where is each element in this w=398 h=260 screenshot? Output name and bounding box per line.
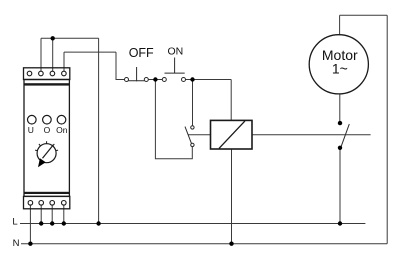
dial ticks: [35, 141, 58, 151]
terminal 1 top: [27, 71, 32, 76]
wire N rail: [21, 243, 387, 245]
wire bottom t2 to L: [40, 205, 42, 223]
junction vertical on L: [96, 221, 100, 225]
wire coil right: [252, 134, 371, 136]
svg-text:L: L: [12, 216, 17, 227]
svg-text:N: N: [13, 238, 20, 249]
svg-text:OFF: OFF: [129, 46, 154, 60]
svg-text:On: On: [56, 125, 68, 135]
relay coil K1: [211, 120, 253, 149]
wire motor bottom: [339, 94, 341, 123]
pushbutton ON (NO): [162, 58, 185, 82]
terminal 2 bottom: [39, 201, 44, 206]
wire second horizontal: [64, 51, 116, 53]
wire down to OFF: [116, 52, 125, 79]
junction t1 on N: [28, 242, 32, 246]
wire bottom t3 to L: [51, 205, 53, 223]
wire t3 up: [52, 38, 54, 71]
main contact of relay: [338, 121, 342, 125]
relay coil diagonal: [219, 121, 245, 148]
terminal 4 top: [62, 71, 67, 76]
svg-text:O: O: [44, 125, 51, 135]
dial hand: [43, 145, 54, 158]
wire coil bottom to N: [231, 149, 233, 244]
wire node B down to aux contact: [192, 80, 194, 126]
wire bypass branch: [155, 80, 192, 159]
junction t2 on L: [39, 221, 43, 225]
junction coil on N: [229, 242, 233, 246]
wire top horizontal: [41, 37, 99, 39]
wire L rail: [20, 223, 365, 225]
svg-text:U: U: [28, 125, 34, 135]
node A junction after OFF: [153, 77, 157, 81]
terminal 2 top: [39, 71, 44, 76]
junction t3 on L: [50, 221, 54, 225]
timer module thick bar top: [24, 83, 69, 85]
pushbutton OFF (NC): [125, 67, 149, 82]
motor M1: [309, 35, 368, 94]
wire bottom t1 to N: [29, 205, 31, 244]
terminal 1 bottom: [28, 201, 33, 206]
wire t4 up: [63, 52, 65, 71]
terminal 3 top: [50, 71, 55, 76]
LED indicator U: [28, 115, 37, 124]
dial knob: [37, 144, 56, 163]
wire long vertical to L: [98, 38, 100, 223]
wire right rail: [386, 15, 388, 243]
terminal 4 bottom: [62, 201, 67, 206]
timer module thick bar bottom: [24, 192, 69, 194]
timer module K1 outline: [24, 68, 70, 209]
wire ON to coil corner: [186, 79, 232, 81]
wire motor top: [339, 15, 341, 35]
wire contact to L: [339, 148, 341, 224]
wire coil top: [230, 80, 232, 121]
node B junction after ON: [190, 77, 194, 81]
wire coil left: [188, 134, 211, 136]
dial arrow head: [38, 158, 46, 167]
auxiliary contact (latching): [185, 126, 194, 147]
wire bottom t4 to L: [63, 205, 65, 223]
wire top right bridge: [340, 14, 388, 16]
junction t4 on L: [62, 221, 66, 225]
junction contact on L: [338, 221, 342, 225]
wire t2 to top rail: [40, 38, 42, 71]
LED indicator O: [43, 115, 52, 124]
svg-text:1~: 1~: [332, 60, 348, 76]
LED indicator On: [57, 115, 66, 124]
junction dot top wire: [51, 36, 55, 40]
terminal 3 bottom: [50, 201, 55, 206]
wire OFF to ON: [148, 79, 162, 81]
svg-text:ON: ON: [168, 46, 184, 58]
